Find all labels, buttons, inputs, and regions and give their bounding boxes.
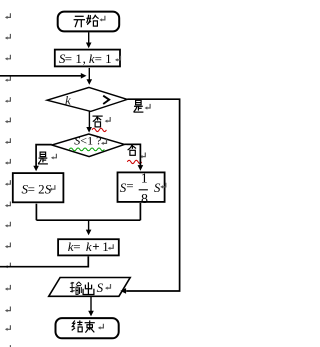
parallelogram 输出 S xyxy=(49,278,131,297)
svg-text:+: + xyxy=(92,239,99,254)
label 结束 xyxy=(72,320,83,331)
wire diamond1 to diamond2 xyxy=(88,112,90,130)
label > xyxy=(103,96,109,104)
arrowhead into diamond2 xyxy=(86,127,92,133)
svg-text:= 1: = 1 xyxy=(95,51,112,66)
rect k=k+1 xyxy=(58,239,119,255)
wire no-branch left: diamond2 to left rect xyxy=(36,145,52,167)
wire left rect down xyxy=(35,204,37,221)
svg-text:k: k xyxy=(65,92,71,107)
arrowhead into end xyxy=(88,311,94,317)
svg-text:k: k xyxy=(86,239,92,254)
label 开始 xyxy=(74,16,85,27)
arrowhead into right rect xyxy=(138,165,144,171)
wire merge horizontal xyxy=(36,219,140,221)
svg-text:= 2: = 2 xyxy=(28,181,45,196)
arrowhead into rect xyxy=(86,43,92,49)
wire terminator to rect xyxy=(88,32,90,43)
label 输出 S xyxy=(70,282,82,295)
rect S=1,k=1 xyxy=(55,50,120,67)
terminator 结束 xyxy=(56,318,119,338)
arrowhead into left rect xyxy=(33,166,39,172)
arrowhead feedback right xyxy=(81,73,87,79)
wire right rect down xyxy=(139,203,141,220)
terminator 开始 xyxy=(58,12,119,32)
squiggle green under S<1 xyxy=(69,148,104,151)
wire parallelogram to end xyxy=(90,297,92,312)
svg-text:=: = xyxy=(126,178,133,193)
svg-text:1: 1 xyxy=(141,172,148,187)
wire yes-branch right: diamond2 to right rect xyxy=(125,144,141,165)
wire loop feedback top xyxy=(0,75,81,77)
rect S=2S xyxy=(13,173,64,202)
squiggle red under 否 xyxy=(92,128,106,131)
svg-text:=: = xyxy=(73,239,80,254)
rect S=(1/8)S xyxy=(118,172,165,202)
pilcrow column left margin xyxy=(5,13,10,347)
svg-text:1: 1 xyxy=(102,239,109,254)
wire k box loop down-left xyxy=(0,256,88,266)
svg-text:S: S xyxy=(154,180,161,195)
wire yes branch right and down to output xyxy=(126,99,179,291)
wire merge to k box xyxy=(88,220,90,230)
label 是 right of diamond1 xyxy=(134,100,144,112)
arrowhead into parallelogram xyxy=(120,288,126,294)
diamond2 S<1? xyxy=(52,134,125,157)
arrowhead into k box xyxy=(86,230,92,236)
svg-text:8: 8 xyxy=(141,192,148,207)
svg-text:,: , xyxy=(83,51,86,66)
wire rect to diamond1 xyxy=(88,68,90,80)
squiggle red under 否 2 xyxy=(127,160,141,163)
label 否 below diamond1 xyxy=(93,116,103,127)
arrowhead into diamond1 xyxy=(87,79,93,85)
label 否 right of diamond2 xyxy=(127,145,137,156)
svg-text:= 1: = 1 xyxy=(65,51,82,66)
diamond1 k>? xyxy=(47,87,127,111)
svg-text:S<1 ?: S<1 ? xyxy=(74,134,101,148)
svg-text:S: S xyxy=(97,280,104,295)
label 是 below left of diamond2 xyxy=(38,152,48,164)
